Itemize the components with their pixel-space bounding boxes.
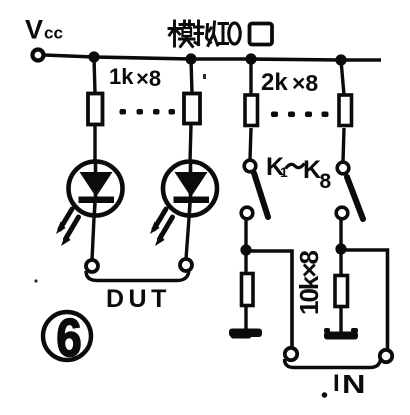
svg-text:6: 6: [56, 307, 82, 367]
wire K1 to node A: [244, 219, 247, 246]
speck artifact: [34, 279, 37, 282]
node junction 2: [185, 53, 196, 64]
ground right: [324, 328, 358, 340]
wire LED2 to DUT terminal: [186, 218, 189, 259]
dots ellipsis row 1: [120, 109, 176, 115]
wire bus to R3: [249, 59, 252, 95]
svg-text:K: K: [303, 156, 321, 184]
svg-text:2k: 2k: [261, 69, 288, 96]
resistor R6 (10k): [335, 276, 348, 307]
svg-text:cc: cc: [44, 24, 63, 43]
LED D2: [163, 162, 217, 219]
模: [169, 21, 180, 46]
wire node B to IN right drop: [343, 250, 388, 349]
bracket DUT: [86, 271, 189, 281]
wire node B to R6: [339, 249, 342, 274]
wire node A to IN left drop: [248, 251, 292, 348]
label K1~K8: [266, 153, 332, 193]
ground left: [229, 329, 262, 339]
svg-text:1k: 1k: [109, 64, 134, 89]
node junction 3: [245, 53, 256, 64]
svg-text:I: I: [333, 370, 340, 397]
terminal IN right: [380, 350, 392, 362]
口: [250, 24, 273, 45]
svg-text:N: N: [342, 370, 365, 399]
0: [229, 23, 240, 44]
switch K1: [241, 160, 268, 219]
dots ellipsis row 2: [271, 112, 329, 118]
resistor R2 (1k): [184, 94, 200, 124]
LED D1: [69, 162, 123, 219]
svg-text:10k×8: 10k×8: [294, 250, 324, 315]
label 6 (figure number): [43, 307, 91, 367]
node junction 1: [88, 51, 99, 62]
terminal DUT right: [180, 259, 192, 271]
wire R1 to LED1: [93, 126, 96, 162]
I: [219, 24, 228, 44]
wire K8 to node B: [339, 219, 342, 246]
terminal DUT left: [86, 260, 98, 272]
wire bus to R1: [94, 57, 95, 93]
svg-text:DUT: DUT: [106, 285, 171, 313]
wire LED1 to DUT terminal: [92, 218, 94, 260]
wire R2 to LED2: [190, 125, 191, 162]
拟: [195, 21, 204, 45]
resistor R1 (1k): [88, 94, 103, 125]
resistor R3 (2k): [245, 95, 258, 126]
resistor R5 (10k): [242, 274, 254, 306]
LED D2 light arrows: [154, 209, 173, 239]
speck artifact: [203, 74, 206, 79]
svg-text:V: V: [25, 15, 43, 45]
net Vcc label: [25, 15, 63, 45]
wire R5 to ground: [244, 307, 247, 331]
bracket IN: [285, 359, 381, 368]
svg-text:8: 8: [320, 170, 332, 193]
svg-text:×8: ×8: [292, 70, 318, 96]
node A: [240, 244, 251, 255]
terminal IN left: [285, 348, 297, 360]
node B: [335, 243, 346, 254]
wire Vcc bus: [44, 55, 381, 60]
wire bus to R2: [191, 59, 192, 93]
wire R4 to switch K8: [343, 128, 344, 162]
wire R3 to switch K1: [250, 128, 251, 160]
LED D1 light arrows: [60, 209, 79, 239]
node junction 4: [335, 54, 346, 65]
svg-text:×8: ×8: [136, 66, 161, 91]
wire R6 to ground: [339, 308, 342, 332]
net label 模拟I0口: [169, 21, 272, 47]
label IN: [322, 370, 366, 399]
wire node A to R5: [244, 250, 247, 272]
terminal Vcc: [33, 50, 44, 61]
switch K8: [336, 162, 363, 219]
resistor R4 (2k): [339, 95, 352, 126]
wire bus to R4: [341, 60, 344, 95]
